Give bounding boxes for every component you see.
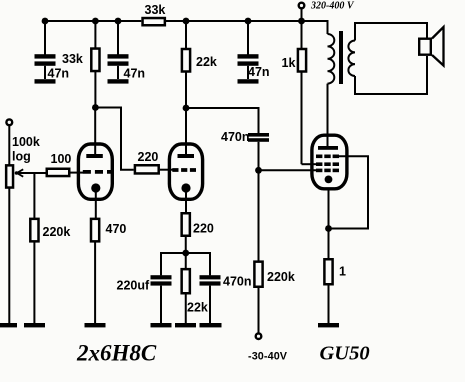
resistor R10 220 (grid stopper V2) <box>135 165 159 173</box>
node junction g1 GU50 <box>255 167 262 174</box>
node junction plate V2 <box>183 105 190 112</box>
ground (C6) <box>200 323 222 327</box>
value label 220k (R8) <box>43 225 71 239</box>
ground (potentiometer) <box>0 323 17 327</box>
value label 33k (R2) <box>145 3 166 17</box>
value label 220k (R6) <box>267 270 295 284</box>
svg-text:GU50: GU50 <box>320 343 370 365</box>
value label 470 (R9) <box>106 222 127 236</box>
wire V2 cathode down <box>185 188 187 213</box>
svg-text:47n: 47n <box>48 67 70 81</box>
value label 33k (R1) <box>62 52 83 66</box>
svg-text:220: 220 <box>193 222 214 236</box>
node junction C2/rail <box>115 18 122 25</box>
wire g3 to cathode <box>329 156 369 228</box>
svg-text:470n: 470n <box>223 275 252 289</box>
wire plate V2 to coupling cap <box>186 108 259 133</box>
svg-text:220k: 220k <box>43 225 71 239</box>
wire GU50 plate to primary <box>327 84 329 146</box>
transformer T1 core <box>339 31 343 84</box>
potentiometer P1 100k log <box>6 126 13 324</box>
resistor R1 33k (plate load V1) <box>91 21 99 108</box>
vacuum tube V2 6H8C-b outline <box>169 144 202 199</box>
svg-text:320-400 V: 320-400 V <box>310 1 355 12</box>
svg-text:470: 470 <box>106 222 127 236</box>
svg-text:47n: 47n <box>124 67 146 81</box>
resistor R7 100 (grid stopper V1) <box>47 169 70 176</box>
resistor R8 220k (grid leak V1) <box>30 219 38 323</box>
svg-text:220uf: 220uf <box>117 279 150 293</box>
capacitor C5 220uf (cathode bypass) <box>151 275 172 323</box>
svg-text:33k: 33k <box>62 52 83 66</box>
resistor R9 470 (cathode V1) <box>91 219 99 323</box>
ground (C2) <box>108 79 129 83</box>
resistor R4 1k (screen dropper GU50) <box>298 21 306 164</box>
wire tap down to R8 <box>33 173 35 218</box>
wire GU50 cathode down <box>328 189 330 229</box>
wire junction to C6 <box>186 253 210 275</box>
resistor R5 1 (cathode GU50) <box>324 229 332 324</box>
speaker LS1 body <box>419 39 431 55</box>
capacitor C6 470n (cathode bypass) <box>200 275 221 323</box>
value label 220uf (C5) <box>117 279 150 293</box>
resistor R2 33k (decoupling, horizontal in rail) <box>143 18 165 25</box>
transformer T1 primary winding <box>328 34 335 84</box>
GU50 anode <box>318 146 338 150</box>
node junction B+/rail <box>298 18 305 25</box>
wire top rail right <box>166 20 328 22</box>
wire plate V1 to R10 <box>95 108 133 170</box>
resistor R12 22k (cathode V2) <box>182 253 190 323</box>
V1 grid <box>83 170 112 174</box>
node junction C3/rail <box>245 18 252 25</box>
wire g1 to junction <box>259 169 317 171</box>
value label 470n (C6) <box>223 275 252 289</box>
ground (C3) <box>238 79 259 83</box>
value label 100 (R7) <box>51 152 72 166</box>
wire junction to C5 <box>161 253 186 275</box>
svg-text:100k: 100k <box>12 135 40 149</box>
wire wiper to R7 <box>17 172 46 174</box>
label -30-40V <box>248 351 288 363</box>
ground (C5) <box>151 323 172 327</box>
value label 220 (R10) <box>138 150 159 164</box>
svg-text:220k: 220k <box>267 270 295 284</box>
wire rail corner to transformer primary <box>327 20 329 34</box>
resistor R6 220k (grid leak GU50) <box>254 170 262 333</box>
svg-text:1k: 1k <box>282 56 296 70</box>
wire V1 cathode down <box>95 188 97 218</box>
V2 cathode dot <box>181 183 190 192</box>
svg-text:22k: 22k <box>196 55 217 69</box>
svg-text:22k: 22k <box>187 301 208 315</box>
V2 grid <box>172 168 196 172</box>
GU50 grid g1 (control) <box>316 169 339 173</box>
value label 1 (R5) <box>339 265 346 279</box>
value label 22k (R12) <box>187 301 208 315</box>
wire secondary top to speaker <box>355 23 427 41</box>
GU50 grid g2 (screen) <box>316 162 339 166</box>
capacitor C4 470n (coupling) <box>248 133 269 170</box>
potentiometer wiper arrow <box>15 169 24 176</box>
svg-text:log: log <box>12 150 31 164</box>
value label 220 (R11) <box>193 222 214 236</box>
value label 47n (C3) <box>248 65 270 79</box>
wire secondary bottom to speaker <box>355 56 427 94</box>
resistor R3 22k (plate load V2) <box>182 21 190 108</box>
GU50 grid g3 (suppressor) <box>316 155 339 159</box>
ground (R12) <box>175 323 196 327</box>
capacitor C1 47n <box>35 21 56 79</box>
ground (C1) <box>35 79 56 83</box>
node junction R1/rail <box>92 18 99 25</box>
vacuum tube V3 GU50 outline <box>312 135 347 189</box>
ground (R8) <box>24 323 45 327</box>
wire top rail left <box>45 20 141 22</box>
node junction GU50 cathode <box>325 225 332 232</box>
node junction plate V1 <box>92 104 99 111</box>
V1 anode <box>86 154 103 158</box>
value label 47n (C1) <box>48 67 70 81</box>
wire R7 to grid V1 <box>71 172 84 174</box>
svg-text:1: 1 <box>339 265 346 279</box>
node junction R3/rail <box>183 18 190 25</box>
resistor R11 220 (cathode V2) <box>182 213 190 253</box>
value label 470n (C4) <box>221 130 250 144</box>
svg-text:2x6H8C: 2x6H8C <box>76 341 157 366</box>
node junction C1/rail <box>42 18 49 25</box>
speaker LS1 horn <box>432 27 444 66</box>
terminal bias -30-40V <box>256 333 262 339</box>
V2 anode <box>178 154 195 158</box>
svg-text:-30-40V: -30-40V <box>248 351 288 363</box>
capacitor C3 47n <box>238 21 259 79</box>
capacitor C2 47n <box>108 21 129 79</box>
vacuum tube V1 6H8C-a outline <box>78 144 112 199</box>
label 100k log <box>12 135 40 164</box>
value label 1k (R4) <box>282 56 296 70</box>
svg-text:33k: 33k <box>145 3 166 17</box>
value label 22k (R3) <box>196 55 217 69</box>
transformer T1 secondary winding <box>348 41 355 77</box>
GU50 cathode dot <box>325 176 333 184</box>
V1 cathode dot <box>91 183 100 192</box>
node junction cathode V2 <box>182 250 189 257</box>
ground (R5) <box>318 323 339 327</box>
terminal B+ 320-400V <box>299 3 305 21</box>
svg-text:100: 100 <box>51 152 72 166</box>
wire g2 to R4 <box>302 163 317 165</box>
svg-text:47n: 47n <box>248 65 270 79</box>
label 2x6H8C <box>76 341 157 366</box>
value label 47n (C2) <box>124 67 146 81</box>
label GU50 <box>320 343 370 365</box>
ground (R9) <box>85 323 106 327</box>
label 320-400 V <box>310 1 355 12</box>
wire V2 plate up <box>185 108 187 154</box>
terminal input <box>6 119 12 125</box>
wire V1 plate up <box>94 108 96 155</box>
wire R10 to grid V2 <box>160 169 173 171</box>
svg-text:220: 220 <box>138 150 159 164</box>
svg-text:470n: 470n <box>221 130 250 144</box>
